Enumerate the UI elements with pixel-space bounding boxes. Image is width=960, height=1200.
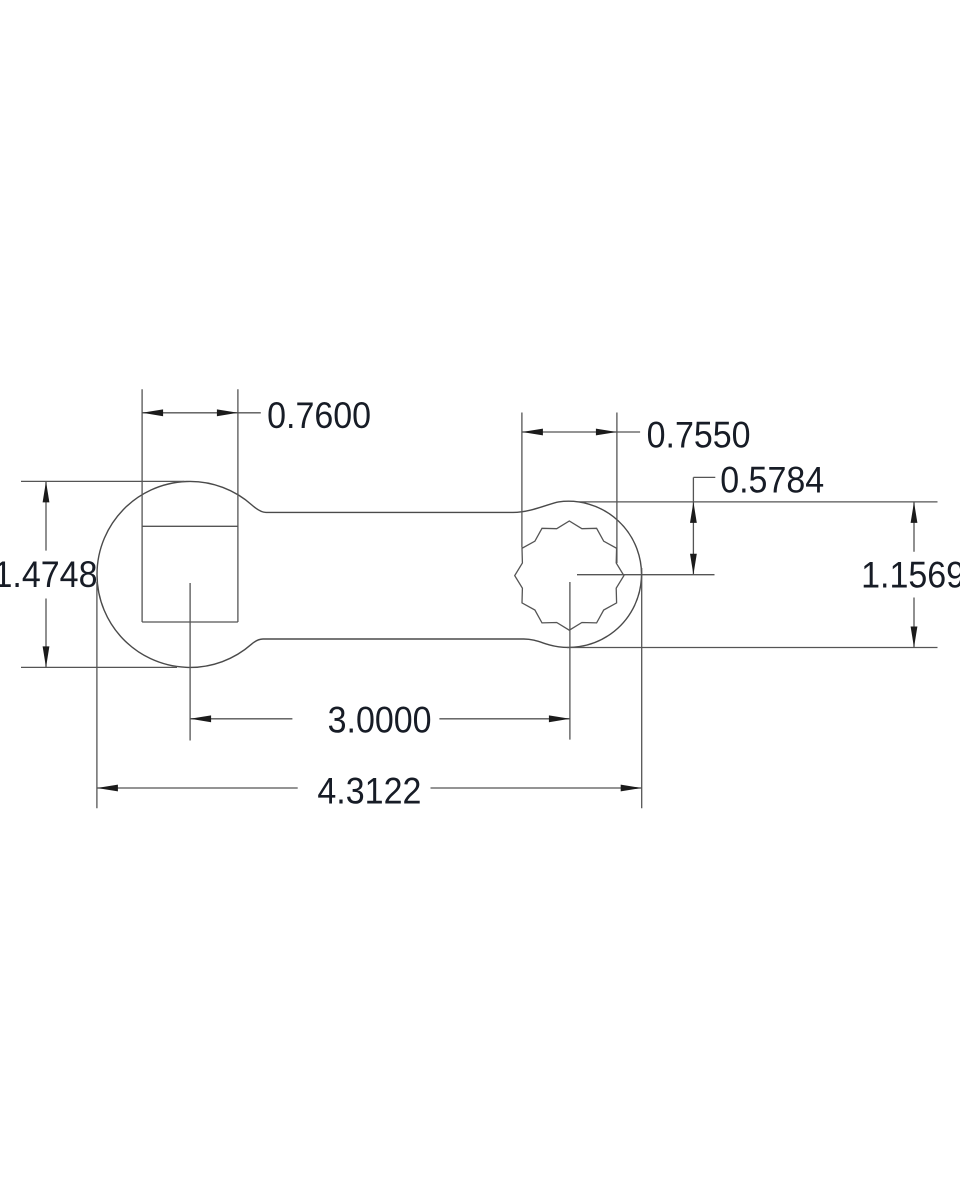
svg-text:0.5784: 0.5784 (720, 459, 824, 500)
ext line 0.7600 right / square right side (237, 389, 239, 622)
leader 0.5784 (693, 477, 715, 574)
arrow 0.7600 right (217, 409, 238, 416)
arrow 0.5784 down (690, 554, 697, 575)
ext line 1.4748 top tangent left head (21, 480, 184, 482)
12-point ring opening (right head) (515, 521, 624, 630)
dim line 3.0000 (broken for text) (190, 718, 570, 720)
arrow 0.7550 left (522, 429, 543, 436)
arrow 1.1569 up (911, 502, 918, 523)
svg-text:0.7550: 0.7550 (647, 414, 751, 455)
arrow 1.4748 up (43, 481, 50, 502)
ext line top (0.5784 / 1.1569) tangent to right head top (579, 501, 938, 503)
dim line 1.1569 (broken for text) (913, 502, 915, 648)
svg-text:1.4748: 1.4748 (0, 554, 98, 595)
dim line 0.7550 (522, 431, 640, 433)
svg-text:4.3122: 4.3122 (317, 771, 421, 812)
arrow 3.0000 left (190, 715, 211, 722)
square drive cutout (left head) (142, 526, 238, 622)
arrow 4.3122 right (621, 785, 642, 792)
center line vertical right head / ext 3.0000 right (569, 582, 571, 740)
ext line 4.3122 left (96, 582, 98, 809)
ext line 0.7550 right (616, 413, 618, 564)
svg-text:0.7600: 0.7600 (267, 395, 371, 436)
arrow 0.7550 right (596, 429, 617, 436)
arrow 3.0000 right (549, 715, 570, 722)
arrow 1.1569 down (911, 627, 918, 648)
arrow 4.3122 left (97, 785, 118, 792)
ext line 0.7600 left / square left side (141, 389, 143, 622)
dim line 1.4748 (broken for text) (45, 481, 47, 667)
ext line 1.4748 bottom tangent left head (21, 666, 177, 668)
dim line 4.3122 (broken for text) (97, 787, 642, 789)
arrow 1.4748 down (43, 646, 50, 667)
center line vertical left head / ext 3.0000 left (189, 583, 191, 741)
center line horizontal right head (577, 574, 715, 576)
dim line 0.7600 (142, 412, 261, 414)
ext line 0.7550 left (521, 413, 523, 548)
svg-text:1.1569: 1.1569 (861, 555, 960, 596)
ext line bottom (1.1569) tangent to right head bottom (567, 647, 938, 649)
arrow 0.7600 left (142, 409, 163, 416)
svg-text:3.0000: 3.0000 (328, 699, 432, 740)
ext line 4.3122 right (641, 568, 643, 808)
arrow 0.5784 up (690, 502, 697, 523)
part outline: wrench adapter silhouette (97, 481, 642, 667)
